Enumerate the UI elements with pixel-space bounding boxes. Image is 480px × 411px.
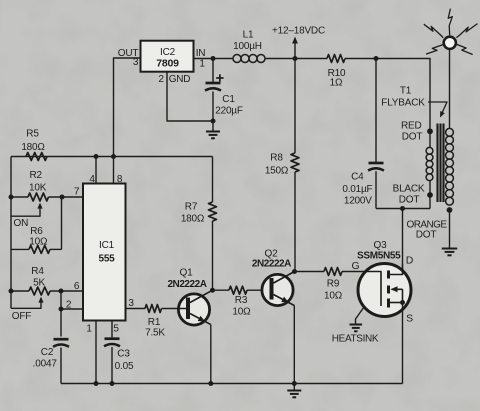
label pin6 [74,281,80,292]
wire C4 to T1 primary bottom [376,197,430,209]
label pin5 [113,324,119,335]
svg-text:BLACK: BLACK [393,184,425,195]
wire Q3 source to rail [402,303,404,384]
ground below C1 [206,121,220,138]
resistor R6 10ohm [11,226,62,253]
wire Q1 collector to R3 [213,289,230,291]
svg-text:R7: R7 [185,202,198,213]
svg-text:0.05: 0.05 [115,361,134,372]
wire ground rail bottom [61,383,403,385]
wire Q2 collector to R9 [295,271,325,273]
wire top rail from IC2 IN to T1 primary [194,59,431,134]
svg-text:R6: R6 [30,226,43,237]
spark bolt northwest [424,24,443,37]
label pin3 [128,298,134,309]
svg-text:R4: R4 [31,266,44,277]
node Q1 emitter rail junction [208,381,213,386]
wire R6 to pin7 [61,197,63,249]
node C3 rail junction [110,381,115,386]
svg-text:2: 2 [158,74,164,85]
capacitor C3 0.05 [104,339,134,384]
node C1 ground junction [211,119,216,124]
node Q1 collector junction [210,288,215,293]
svg-text:C4: C4 [351,172,364,183]
transformer T1 secondary winding [446,50,454,205]
wire R4 wiper OFF [11,297,44,309]
resistor R4 5K pot [11,266,83,295]
power +12-18VDC arrow [272,26,325,59]
svg-text:1200V: 1200V [344,196,372,207]
label OFF [12,311,31,322]
label pin7 [74,187,80,198]
arrow FLYBACK pointer [428,102,447,118]
svg-text:1: 1 [199,59,205,70]
spark bolt southeast [457,44,473,54]
node R4 left junction [9,289,14,294]
svg-text:3: 3 [128,298,134,309]
svg-text:IC1: IC1 [99,240,115,251]
resistor R1 7.5K [145,305,165,339]
svg-text:6: 6 [74,281,80,292]
resistor R9 10ohm [324,268,343,302]
svg-text:5: 5 [113,324,119,335]
label IN pin1 [196,48,206,70]
svg-text:HEATSINK: HEATSINK [332,334,379,345]
node +12V junction [293,56,298,61]
svg-text:SSM5N55: SSM5N55 [357,251,401,262]
node IN junction [211,56,216,61]
inductor L1 100uH [233,30,265,63]
svg-text:S: S [406,313,413,325]
svg-text:RED: RED [401,120,422,131]
node Q2 collector junction [292,269,297,274]
label pin2 [66,300,72,311]
wire Q1 emitter to rail [210,325,212,384]
svg-text:G: G [352,260,360,272]
wire 555 top net [11,156,213,158]
node drain junction [400,206,405,211]
label pin1 [86,324,92,335]
wire OUT from IC2 pin3 [114,58,141,157]
spark bolt southwest [426,45,443,55]
resistor R2 10K pot [11,170,83,201]
svg-text:GND: GND [169,74,191,85]
svg-text:R5: R5 [26,129,39,140]
transistor Q2 2N2222A [252,249,295,306]
ground below T1 secondary [442,249,457,256]
node pin8 junction [111,154,116,159]
node pin2 junction [59,307,64,312]
svg-text:R1: R1 [148,317,161,328]
svg-text:7809: 7809 [156,58,179,70]
IC U2 body (IC2 7809) [141,41,194,72]
svg-text:R9: R9 [327,279,340,290]
transistor Q1 2N2222A [162,268,213,326]
wire Q2 emitter to rail [293,306,295,384]
svg-text:10K: 10K [29,183,47,194]
svg-text:DOT: DOT [402,131,423,142]
svg-text:7: 7 [74,187,80,198]
svg-text:8: 8 [117,174,123,185]
node pin6 junction [59,289,64,294]
svg-text:1Ω: 1Ω [330,78,343,89]
wire pin4 [95,157,97,184]
svg-text:10Ω: 10Ω [29,237,48,248]
capacitor C1 220uF [205,59,243,122]
label GND pin2 [158,74,190,85]
svg-text:5K: 5K [33,278,45,289]
resistor R8 150ohm [265,59,299,272]
spark bolt north [448,9,452,36]
svg-text:R8: R8 [270,153,283,164]
svg-text:2N2222A: 2N2222A [252,259,291,270]
wire pin8 [113,157,115,184]
node T1 black dot [393,184,433,206]
node Q2 emitter rail junction [292,381,297,386]
spark discharge ball [444,37,456,49]
svg-text:D: D [406,255,414,267]
resistor R3 10ohm [229,286,251,317]
label ON [13,218,28,229]
label pin4 [89,174,95,185]
svg-text:R3: R3 [235,295,248,306]
svg-text:3: 3 [133,57,139,68]
resistor R10 1ohm [327,55,346,89]
wire left rail [10,157,12,309]
node Q3 body-source tie [400,300,405,305]
ground HEATSINK [332,307,379,345]
svg-text:.0047: .0047 [33,359,58,370]
svg-text:DOT: DOT [399,195,420,206]
label OUT pin3 [118,48,139,68]
svg-text:555: 555 [98,254,115,265]
IC U1 body (IC1 555) [83,184,126,321]
wire secondary to ground [449,210,451,249]
transistor Q3 SSM5N55 MOSFET [342,240,414,325]
wire pin3 to R1 [126,308,146,310]
label T1 FLYBACK [381,86,425,109]
node pin1 rail junction [94,381,99,386]
svg-text:180Ω: 180Ω [181,214,205,225]
svg-text:DOT: DOT [416,230,437,241]
node pin7 junction [60,195,65,200]
transformer T1 core [438,124,444,203]
svg-text:OFF: OFF [12,311,31,322]
svg-text:C3: C3 [117,349,130,360]
svg-text:220µF: 220µF [215,106,243,117]
resistor R7 180ohm [181,157,217,291]
svg-text:150Ω: 150Ω [265,166,289,177]
svg-text:4: 4 [89,174,95,185]
node T1 orange dot [406,207,452,240]
svg-text:T1: T1 [400,86,412,97]
spark bolt northeast [456,24,477,38]
node T1 red dot [401,120,433,142]
svg-text:180Ω: 180Ω [21,142,45,153]
wire pin2 net [61,291,83,337]
node R2 left junction [9,195,14,200]
label pin8 [117,174,123,185]
wire pin1 to ground rail [95,321,97,384]
svg-text:C1: C1 [222,94,235,105]
wire R2 wiper ON [11,203,43,217]
svg-text:FLYBACK: FLYBACK [381,98,425,109]
transformer T1 primary winding [426,133,433,193]
svg-text:2N2222A: 2N2222A [167,279,206,290]
node C4 branch junction [374,56,379,61]
resistor R5 180ohm [21,129,47,161]
ground main below rail [287,384,301,398]
svg-text:IN: IN [196,48,206,59]
svg-text:Q1: Q1 [180,268,194,279]
svg-text:10Ω: 10Ω [324,291,343,302]
svg-text:ON: ON [13,218,28,229]
capacitor C2 .0047 [33,339,69,383]
wire Q3 drain [402,209,404,264]
wire R3 to Q2 base [247,289,270,291]
svg-text:C2: C2 [41,347,54,358]
svg-text:0.01µF: 0.01µF [342,184,372,195]
svg-text:+12–18VDC: +12–18VDC [272,26,325,37]
svg-text:100µH: 100µH [233,41,262,52]
wire pin5 to C3 [111,321,113,339]
svg-text:Q3: Q3 [374,240,388,251]
wire IC2 GND to C1 bottom [167,72,213,121]
capacitor C4 0.01uF 1200V [342,59,384,209]
svg-text:R2: R2 [30,170,43,181]
svg-text:2: 2 [66,300,72,311]
svg-text:7.5K: 7.5K [145,328,165,339]
svg-text:L1: L1 [243,30,254,41]
node pin4 junction [94,154,99,159]
svg-text:10Ω: 10Ω [232,307,251,318]
svg-text:1: 1 [86,324,92,335]
